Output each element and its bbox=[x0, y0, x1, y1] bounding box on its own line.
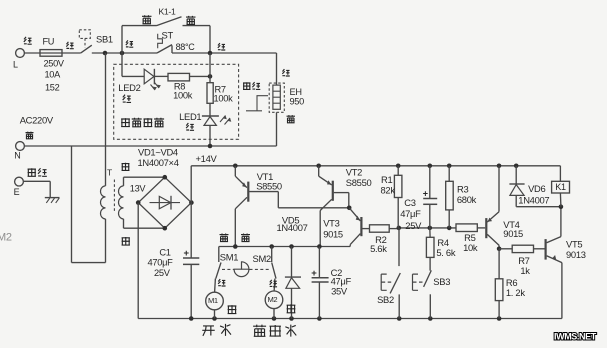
svg-text:T: T bbox=[107, 167, 112, 177]
svg-text:AC220V: AC220V bbox=[20, 115, 54, 126]
svg-text:VD6: VD6 bbox=[528, 183, 545, 194]
svg-text:+: + bbox=[311, 268, 317, 279]
svg-text:1N4007: 1N4007 bbox=[518, 195, 549, 206]
svg-text:82k: 82k bbox=[381, 185, 396, 196]
svg-text:1k: 1k bbox=[520, 265, 530, 276]
svg-text:680k: 680k bbox=[457, 194, 477, 205]
svg-text:100k: 100k bbox=[173, 91, 193, 101]
svg-text:M1: M1 bbox=[208, 296, 218, 305]
svg-text:950: 950 bbox=[290, 96, 305, 106]
svg-text:+: + bbox=[184, 248, 190, 259]
svg-text:VT5: VT5 bbox=[566, 238, 582, 249]
svg-text:IWMS.NET: IWMS.NET bbox=[554, 332, 597, 342]
svg-text:ST: ST bbox=[162, 30, 174, 41]
svg-text:E: E bbox=[14, 187, 20, 197]
svg-text:S8550: S8550 bbox=[256, 180, 282, 191]
svg-text:LED2: LED2 bbox=[118, 82, 140, 93]
svg-text:10A: 10A bbox=[45, 69, 62, 79]
svg-text:M2: M2 bbox=[268, 295, 278, 304]
svg-text:9015: 9015 bbox=[323, 228, 343, 239]
svg-text:S8550: S8550 bbox=[346, 177, 372, 188]
svg-text:470μF: 470μF bbox=[148, 257, 174, 267]
svg-text:5.6k: 5.6k bbox=[370, 243, 387, 254]
svg-text:K1-1: K1-1 bbox=[159, 7, 176, 17]
svg-text:25V: 25V bbox=[154, 268, 171, 278]
svg-text:250V: 250V bbox=[44, 59, 65, 69]
svg-text:13V: 13V bbox=[130, 184, 147, 194]
svg-text:9015: 9015 bbox=[503, 228, 523, 239]
svg-text:FU: FU bbox=[43, 37, 55, 47]
svg-text:1N4007×4: 1N4007×4 bbox=[138, 157, 179, 168]
svg-text:SB1: SB1 bbox=[96, 33, 113, 44]
svg-text:N: N bbox=[14, 151, 20, 161]
svg-text:SB3: SB3 bbox=[433, 276, 450, 287]
svg-text:L: L bbox=[13, 60, 18, 70]
svg-text:1. 2k: 1. 2k bbox=[506, 287, 525, 298]
svg-text:+14V: +14V bbox=[196, 153, 218, 164]
svg-text:R1: R1 bbox=[381, 174, 392, 185]
svg-text:SB2: SB2 bbox=[377, 294, 394, 305]
svg-text:9013: 9013 bbox=[566, 249, 586, 260]
svg-text:88°C: 88°C bbox=[176, 42, 196, 52]
svg-text:47μF: 47μF bbox=[400, 208, 421, 219]
svg-text:C1: C1 bbox=[159, 247, 170, 257]
svg-text:SM1: SM1 bbox=[220, 252, 238, 263]
svg-text:VT3: VT3 bbox=[323, 218, 339, 229]
svg-text:5. 6k: 5. 6k bbox=[436, 247, 455, 258]
svg-text:C3: C3 bbox=[404, 197, 415, 208]
svg-text:SM2: SM2 bbox=[253, 253, 271, 264]
svg-text:M2: M2 bbox=[0, 231, 12, 243]
svg-text:152: 152 bbox=[45, 82, 60, 92]
svg-text:100k: 100k bbox=[214, 93, 234, 103]
svg-text:35V: 35V bbox=[331, 286, 348, 297]
svg-text:LED1: LED1 bbox=[179, 111, 201, 122]
svg-text:10k: 10k bbox=[463, 242, 478, 253]
svg-text:VT2: VT2 bbox=[346, 166, 362, 177]
svg-text:+: + bbox=[423, 189, 428, 199]
svg-text:25V: 25V bbox=[405, 220, 422, 231]
svg-text:K1: K1 bbox=[555, 182, 566, 192]
svg-text:1N4007: 1N4007 bbox=[277, 222, 308, 233]
